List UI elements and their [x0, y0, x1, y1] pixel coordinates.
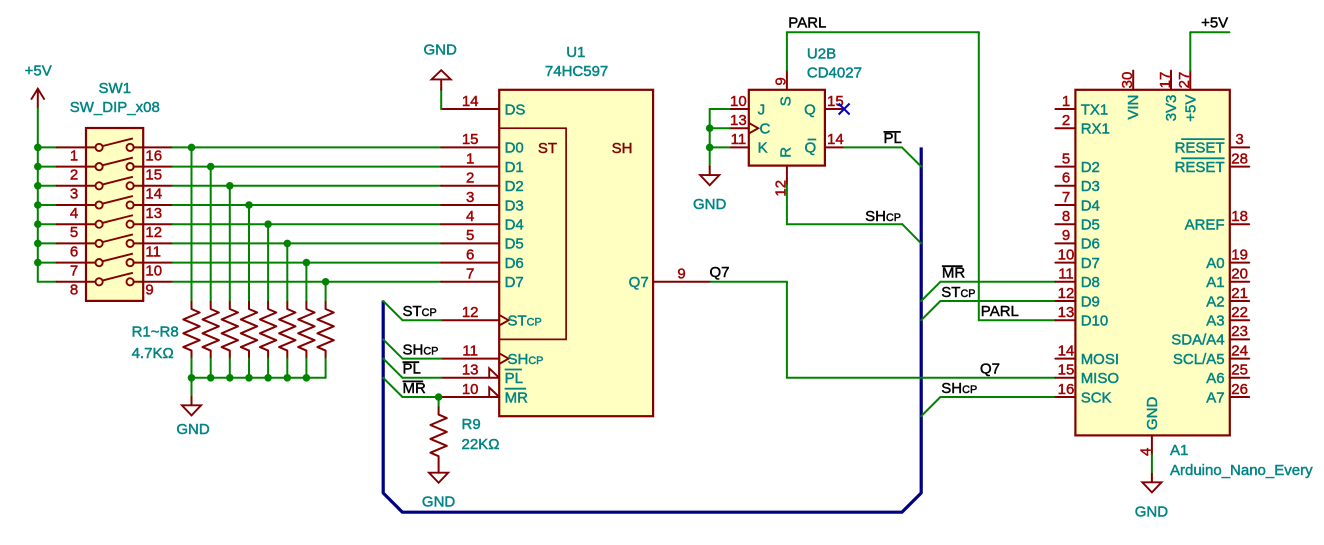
svg-text:1: 1 [466, 150, 474, 167]
bus entry PL (left) [383, 359, 402, 378]
wire R pin down [786, 185, 788, 224]
switch SW1 element 5 [57, 215, 173, 228]
svg-text:GND: GND [176, 421, 210, 438]
pin 20 A1 A1 [1230, 281, 1249, 283]
wire R1 to rail [191, 359, 193, 378]
svg-text:GND: GND [422, 494, 456, 511]
svg-text:+5V: +5V [1182, 95, 1199, 122]
pin 12 U2B R (bottom) [786, 166, 788, 185]
resistor R7 [298, 301, 314, 359]
pin 28 A1 RESET [1230, 166, 1249, 168]
svg-text:D3: D3 [505, 197, 524, 214]
junction row 3 col R3 [226, 182, 234, 190]
svg-text:3: 3 [1235, 131, 1243, 148]
pin 1 A1 TX1 [1055, 108, 1075, 110]
svg-text:MISO: MISO [1081, 370, 1119, 387]
svg-text:D5: D5 [1081, 217, 1100, 234]
junction rail R6 [284, 374, 292, 382]
bus (blue) main loop [383, 147, 921, 512]
svg-text:15: 15 [1058, 362, 1075, 379]
svg-text:ST: ST [538, 140, 557, 157]
pin 11 A1 D8 [1055, 281, 1075, 283]
svg-text:25: 25 [1231, 362, 1248, 379]
svg-text:27: 27 [1176, 72, 1193, 89]
svg-text:D3: D3 [1081, 178, 1100, 195]
svg-text:TX1: TX1 [1081, 101, 1109, 118]
resistor R8 [317, 301, 333, 359]
svg-text:R: R [777, 147, 794, 158]
pin 9 U2B S (top) [786, 71, 788, 90]
junction row 8 col R8 [322, 278, 330, 286]
wire PARL to A1 D10 [979, 319, 1056, 321]
pin 15 U2B Q [825, 108, 844, 110]
wire SW1 pin 10 to U1 D6 [173, 262, 442, 264]
svg-text:7: 7 [1062, 189, 1070, 206]
svg-text:SDA/A4: SDA/A4 [1171, 332, 1224, 349]
svg-text:J: J [758, 101, 766, 118]
module A1 Arduino_Nano_Every body [1075, 90, 1229, 436]
svg-text:MR: MR [403, 380, 426, 397]
svg-text:S: S [777, 96, 794, 106]
wire PARL top horizontal [787, 31, 979, 33]
svg-text:23: 23 [1231, 323, 1248, 340]
flip-flop U2B CD4027 body [749, 90, 825, 166]
svg-text:CD4027: CD4027 [807, 64, 862, 81]
wire +5V to SW1 pin 3 [38, 185, 57, 187]
pin 13 U1 PL (active low) [441, 377, 499, 379]
ground GND (R1-R8 rail) [182, 397, 201, 416]
bus entry SHcp (right) [921, 397, 940, 416]
svg-text:D6: D6 [1081, 236, 1100, 253]
svg-text:12: 12 [1058, 285, 1075, 302]
pin 5 A1 D2 [1055, 166, 1075, 168]
svg-text:PL: PL [505, 370, 523, 387]
wire J stub [710, 108, 730, 110]
svg-text:20: 20 [1231, 266, 1248, 283]
svg-text:7: 7 [70, 263, 78, 280]
svg-text:13: 13 [145, 205, 162, 222]
svg-text:12: 12 [145, 224, 162, 241]
svg-text:22KΩ: 22KΩ [462, 436, 500, 453]
svg-text:16: 16 [145, 147, 162, 164]
junction row 7 col R7 [303, 259, 311, 267]
wire +5V to SW1 pin 1 [38, 146, 57, 148]
svg-text:D4: D4 [1081, 197, 1100, 214]
pin 12 A1 D9 [1055, 300, 1075, 302]
svg-text:9: 9 [772, 77, 789, 85]
svg-text:4.7KΩ: 4.7KΩ [132, 345, 174, 362]
svg-text:13: 13 [1058, 304, 1075, 321]
junction +5V rail row 2 [34, 163, 42, 171]
svg-text:3V3: 3V3 [1163, 95, 1180, 122]
svg-text:A1: A1 [1206, 274, 1224, 291]
junction +5V rail row 1 [34, 144, 42, 152]
resistor R4 [241, 301, 257, 359]
pin 18 A1 AREF [1230, 223, 1249, 225]
svg-text:Q7: Q7 [629, 274, 649, 291]
svg-text:D0: D0 [505, 140, 524, 157]
wire SHcp to A1 SCK [940, 396, 1055, 398]
bus entry STcp (right) [921, 301, 940, 320]
svg-text:+5V: +5V [25, 62, 52, 79]
junction +5V rail row 3 [34, 182, 42, 190]
svg-text:11: 11 [1058, 266, 1074, 283]
junction row 5 col R5 [264, 220, 272, 228]
junction rail R5 [264, 374, 272, 382]
svg-text:D1: D1 [505, 159, 524, 176]
svg-text:SHCP: SHCP [865, 208, 901, 225]
svg-text:D7: D7 [1081, 255, 1100, 272]
pin 9 U1 Q7 output [653, 281, 711, 283]
wire R7 to rail [305, 359, 307, 378]
svg-text:10: 10 [462, 381, 479, 398]
pin 25 A1 A6 [1230, 377, 1249, 379]
pin 7 U1 D7 [441, 281, 499, 283]
bus entry MR (left) [383, 378, 402, 397]
svg-text:Arduino_Nano_Every: Arduino_Nano_Every [1170, 462, 1313, 479]
wire DS pin to GND [440, 90, 442, 109]
pin 17 A1 3V3 (top) [1170, 71, 1172, 90]
ground GND (A1) [1142, 474, 1161, 493]
svg-text:AREF: AREF [1185, 217, 1225, 234]
no-connect flag X on pin 15 [839, 104, 850, 115]
svg-text:7: 7 [466, 266, 474, 283]
svg-text:SW_DIP_x08: SW_DIP_x08 [70, 99, 160, 116]
svg-text:R9: R9 [462, 416, 481, 433]
wire down to resistor R6 [286, 243, 288, 301]
svg-text:10: 10 [145, 263, 162, 280]
svg-text:2: 2 [466, 170, 474, 187]
wire MR to U1 [403, 396, 442, 398]
pin 1 U1 D1 [441, 166, 499, 168]
wire +5V rail vertical [37, 108, 39, 281]
pin 26 A1 A7 [1230, 396, 1249, 398]
svg-text:D9: D9 [1081, 293, 1100, 310]
resistor R9 [430, 407, 446, 465]
pin 10 U2B J [730, 108, 749, 110]
svg-text:GND: GND [424, 41, 458, 58]
pin 21 A1 A2 [1230, 300, 1249, 302]
svg-text:3: 3 [70, 186, 78, 203]
svg-text:D8: D8 [1081, 274, 1100, 291]
svg-text:1: 1 [70, 147, 78, 164]
svg-text:DS: DS [505, 101, 526, 118]
svg-text:D5: D5 [505, 236, 524, 253]
resistor R2 [203, 301, 219, 359]
svg-text:15: 15 [145, 167, 162, 184]
wire resistor bottom rail [192, 377, 326, 379]
wire down to resistor R3 [229, 186, 231, 301]
svg-text:A0: A0 [1206, 255, 1224, 272]
resistor R6 [279, 301, 295, 359]
resistor R1 [183, 301, 199, 359]
wire +5V to SW1 pin 7 [38, 262, 57, 264]
svg-text:PL: PL [403, 361, 421, 378]
wire SW1 pin 9 to U1 D7 [173, 281, 442, 283]
junction rail R4 [245, 374, 253, 382]
switch SW1 element 1 [57, 138, 173, 151]
svg-text:8: 8 [70, 282, 78, 299]
wire +5V to SW1 pin 2 [38, 166, 57, 168]
wire PL to U1 [403, 377, 442, 379]
junction row 6 col R6 [284, 240, 292, 248]
pin 2 A1 RX1 [1055, 127, 1075, 129]
wire Q7 from U1 [711, 281, 787, 283]
svg-text:Q7: Q7 [710, 264, 730, 281]
svg-text:A3: A3 [1206, 313, 1224, 330]
svg-text:GND: GND [1135, 504, 1169, 521]
wire down to resistor R5 [267, 224, 269, 301]
svg-text:5: 5 [70, 224, 78, 241]
svg-text:SHCP: SHCP [941, 380, 977, 397]
wire +5V to SW1 pin 8 [38, 281, 57, 283]
svg-text:6: 6 [1062, 170, 1070, 187]
pin 4 A1 GND (bottom) [1151, 435, 1153, 454]
pin 19 A1 A0 [1230, 262, 1249, 264]
wire MR to A1 D8 [940, 281, 1055, 283]
switch SW1 element 2 [57, 158, 173, 171]
svg-text:A6: A6 [1206, 370, 1224, 387]
wire Q7 to A1 MISO [787, 377, 1056, 379]
svg-text:5: 5 [1062, 150, 1070, 167]
junction rail R7 [303, 374, 311, 382]
junction row 2 col R2 [207, 163, 215, 171]
svg-text:D10: D10 [1081, 313, 1109, 330]
svg-text:5: 5 [466, 227, 474, 244]
junction rail R3 [226, 374, 234, 382]
pin 27 A1 +5V (top) [1189, 71, 1191, 90]
wire A1 GND down [1151, 455, 1153, 474]
wire R6 to rail [286, 359, 288, 378]
wire +5V up [1189, 32, 1191, 70]
svg-text:14: 14 [462, 93, 479, 110]
svg-text:PARL: PARL [981, 303, 1019, 320]
svg-text:D2: D2 [505, 178, 524, 195]
wire S pin up [786, 32, 788, 70]
svg-text:STCP: STCP [403, 303, 437, 320]
wire down to resistor R1 [191, 147, 193, 301]
svg-text:Q: Q [805, 140, 817, 157]
pin 10 A1 D7 [1055, 262, 1075, 264]
svg-text:A7: A7 [1206, 389, 1224, 406]
junction +5V rail row 7 [34, 259, 42, 267]
switch SW1 element 8 [57, 273, 173, 286]
svg-text:21: 21 [1231, 285, 1248, 302]
pin 14 A1 MOSI [1055, 358, 1075, 360]
wire down to resistor R7 [305, 263, 307, 301]
wire JCK vertical [709, 109, 711, 167]
wire C stub [710, 127, 730, 129]
pin 15 A1 MISO [1055, 377, 1075, 379]
junction rail R2 [207, 374, 215, 382]
svg-text:9: 9 [677, 266, 685, 283]
pin 22 A1 A3 [1230, 319, 1249, 321]
junction C [706, 124, 714, 132]
svg-text:10: 10 [1058, 246, 1075, 263]
wire +5V to SW1 pin 5 [38, 223, 57, 225]
svg-text:1: 1 [1062, 93, 1070, 110]
pin 16 A1 SCK [1055, 396, 1075, 398]
bus entry MR (right) [921, 282, 940, 301]
svg-text:30: 30 [1119, 72, 1136, 89]
svg-text:U2B: U2B [807, 45, 836, 62]
svg-text:8: 8 [1062, 208, 1070, 225]
svg-text:C: C [760, 121, 771, 138]
svg-text:RESET: RESET [1175, 159, 1225, 176]
svg-text:A2: A2 [1206, 293, 1224, 310]
bus entry SHcp (U2B) [902, 224, 921, 243]
svg-text:24: 24 [1231, 342, 1248, 359]
svg-text:MR: MR [942, 265, 965, 282]
svg-text:14: 14 [827, 131, 844, 148]
pin 3 A1 RESET [1230, 146, 1249, 148]
svg-text:SW1: SW1 [99, 80, 132, 97]
wire R2 to rail [210, 359, 212, 378]
wire +5V to SW1 pin 4 [38, 204, 57, 206]
wire SW1 pin 11 to U1 D5 [173, 242, 442, 244]
bus entry PL [902, 147, 921, 166]
svg-text:15: 15 [462, 131, 479, 148]
pin 6 U1 D6 [441, 262, 499, 264]
junction +5V rail row 4 [34, 201, 42, 209]
pin 3 U1 D3 [441, 204, 499, 206]
svg-text:SCL/A5: SCL/A5 [1173, 351, 1225, 368]
pin 8 A1 D5 [1055, 223, 1075, 225]
svg-text:D6: D6 [505, 255, 524, 272]
svg-text:SCK: SCK [1081, 389, 1112, 406]
switch SW1 element 3 [57, 177, 173, 190]
wire SHcp horizontal [787, 223, 902, 225]
switch SW1 element 4 [57, 196, 173, 209]
wire down to resistor R8 [325, 282, 327, 301]
bus entry SH (left) [383, 339, 402, 358]
pin 2 U1 D2 [441, 185, 499, 187]
junction +5V rail row 6 [34, 240, 42, 248]
wire SW1 pin 15 to U1 D1 [173, 166, 442, 168]
svg-text:11: 11 [462, 342, 478, 359]
ground GND (U1 DS) [432, 70, 451, 90]
svg-text:STCP: STCP [941, 284, 975, 301]
wire R4 to rail [248, 359, 250, 378]
wire down to resistor R2 [210, 167, 212, 301]
wire SW1 pin 16 to U1 D0 [173, 146, 442, 148]
svg-text:PARL: PARL [788, 15, 826, 32]
pin 11 U1 SHcp (clock) [441, 358, 499, 360]
pin 14 U2B Qbar [825, 146, 844, 148]
svg-text:22: 22 [1231, 304, 1248, 321]
junction rail R1 [188, 374, 196, 382]
svg-text:R1~R8: R1~R8 [132, 324, 179, 341]
svg-text:GND: GND [1144, 397, 1161, 431]
svg-text:SH: SH [612, 140, 633, 157]
wire K stub [710, 146, 730, 148]
svg-text:MR: MR [505, 389, 528, 406]
svg-text:D2: D2 [1081, 159, 1100, 176]
wire ST to U1 [403, 319, 442, 321]
switch SW1 SW_DIP_x08 body [86, 128, 143, 301]
pin 10 U1 MR (active low) [441, 396, 499, 398]
pin 9 A1 D6 [1055, 242, 1075, 244]
svg-text:13: 13 [730, 112, 747, 129]
switch SW1 element 7 [57, 254, 173, 267]
resistor R5 [260, 301, 276, 359]
svg-text:MOSI: MOSI [1081, 351, 1119, 368]
svg-text:4: 4 [466, 208, 474, 225]
svg-text:K: K [758, 140, 768, 157]
wire PL from Qbar [844, 146, 902, 148]
svg-text:16: 16 [1058, 381, 1075, 398]
svg-text:2: 2 [1062, 112, 1070, 129]
svg-text:RESET: RESET [1175, 140, 1225, 157]
pin 24 A1 SCL/A5 [1230, 358, 1249, 360]
wire +5V horizontal [1190, 31, 1229, 33]
svg-text:74HC597: 74HC597 [545, 63, 608, 80]
junction R9 / MR wire [435, 393, 443, 401]
pin 4 U1 D4 [441, 223, 499, 225]
svg-text:3: 3 [466, 189, 474, 206]
svg-text:12: 12 [462, 304, 479, 321]
pin 6 A1 D3 [1055, 185, 1075, 187]
junction K [706, 144, 714, 152]
pin 13 U2B C (clock) [730, 127, 749, 129]
svg-text:Q: Q [804, 101, 816, 118]
svg-text:U1: U1 [566, 44, 585, 61]
wire SW1 pin 12 to U1 D4 [173, 223, 442, 225]
wire Q7 vertical [786, 282, 788, 378]
svg-text:RX1: RX1 [1081, 121, 1110, 138]
junction row 4 col R4 [245, 201, 253, 209]
pin 7 A1 D4 [1055, 204, 1075, 206]
bus entry ST (left) [383, 301, 402, 320]
pin 30 A1 VIN (top) [1132, 71, 1134, 90]
svg-text:18: 18 [1231, 208, 1248, 225]
pin 11 U2B K [730, 146, 749, 148]
ground GND (R9) [429, 464, 448, 483]
wire PARL vertical down [978, 32, 980, 320]
wire R3 to rail [229, 359, 231, 378]
svg-text:D4: D4 [505, 217, 524, 234]
wire SH to U1 [403, 358, 442, 360]
U1 inner block ST [499, 128, 566, 339]
pin 23 A1 SDA/A4 [1230, 338, 1249, 340]
pin 13 A1 D10 [1055, 319, 1075, 321]
svg-text:D7: D7 [505, 274, 524, 291]
switch SW1 element 6 [57, 234, 173, 247]
junction row 1 col R1 [188, 144, 196, 152]
resistor R3 [222, 301, 238, 359]
pin 14 U1 DS [441, 108, 499, 110]
svg-text:6: 6 [466, 246, 474, 263]
wire MR to R9 [438, 397, 440, 407]
svg-text:VIN: VIN [1125, 95, 1142, 120]
ground GND (U2B) [700, 167, 719, 186]
wire R5 to rail [267, 359, 269, 378]
pin 12 U1 STcp (clock) [441, 319, 499, 321]
svg-text:SHCP: SHCP [403, 342, 439, 359]
svg-text:10: 10 [730, 93, 747, 110]
wire R8 to rail [325, 359, 327, 378]
svg-text:14: 14 [1058, 342, 1075, 359]
svg-text:28: 28 [1231, 150, 1248, 167]
svg-text:6: 6 [70, 243, 78, 260]
wire down to resistor R4 [248, 205, 250, 301]
svg-text:2: 2 [70, 167, 78, 184]
wire STcp to A1 D9 [940, 300, 1055, 302]
wire rail to GND [191, 378, 193, 397]
svg-text:9: 9 [1062, 227, 1070, 244]
svg-text:Q7: Q7 [980, 361, 1000, 378]
wire SW1 pin 14 to U1 D2 [173, 185, 442, 187]
